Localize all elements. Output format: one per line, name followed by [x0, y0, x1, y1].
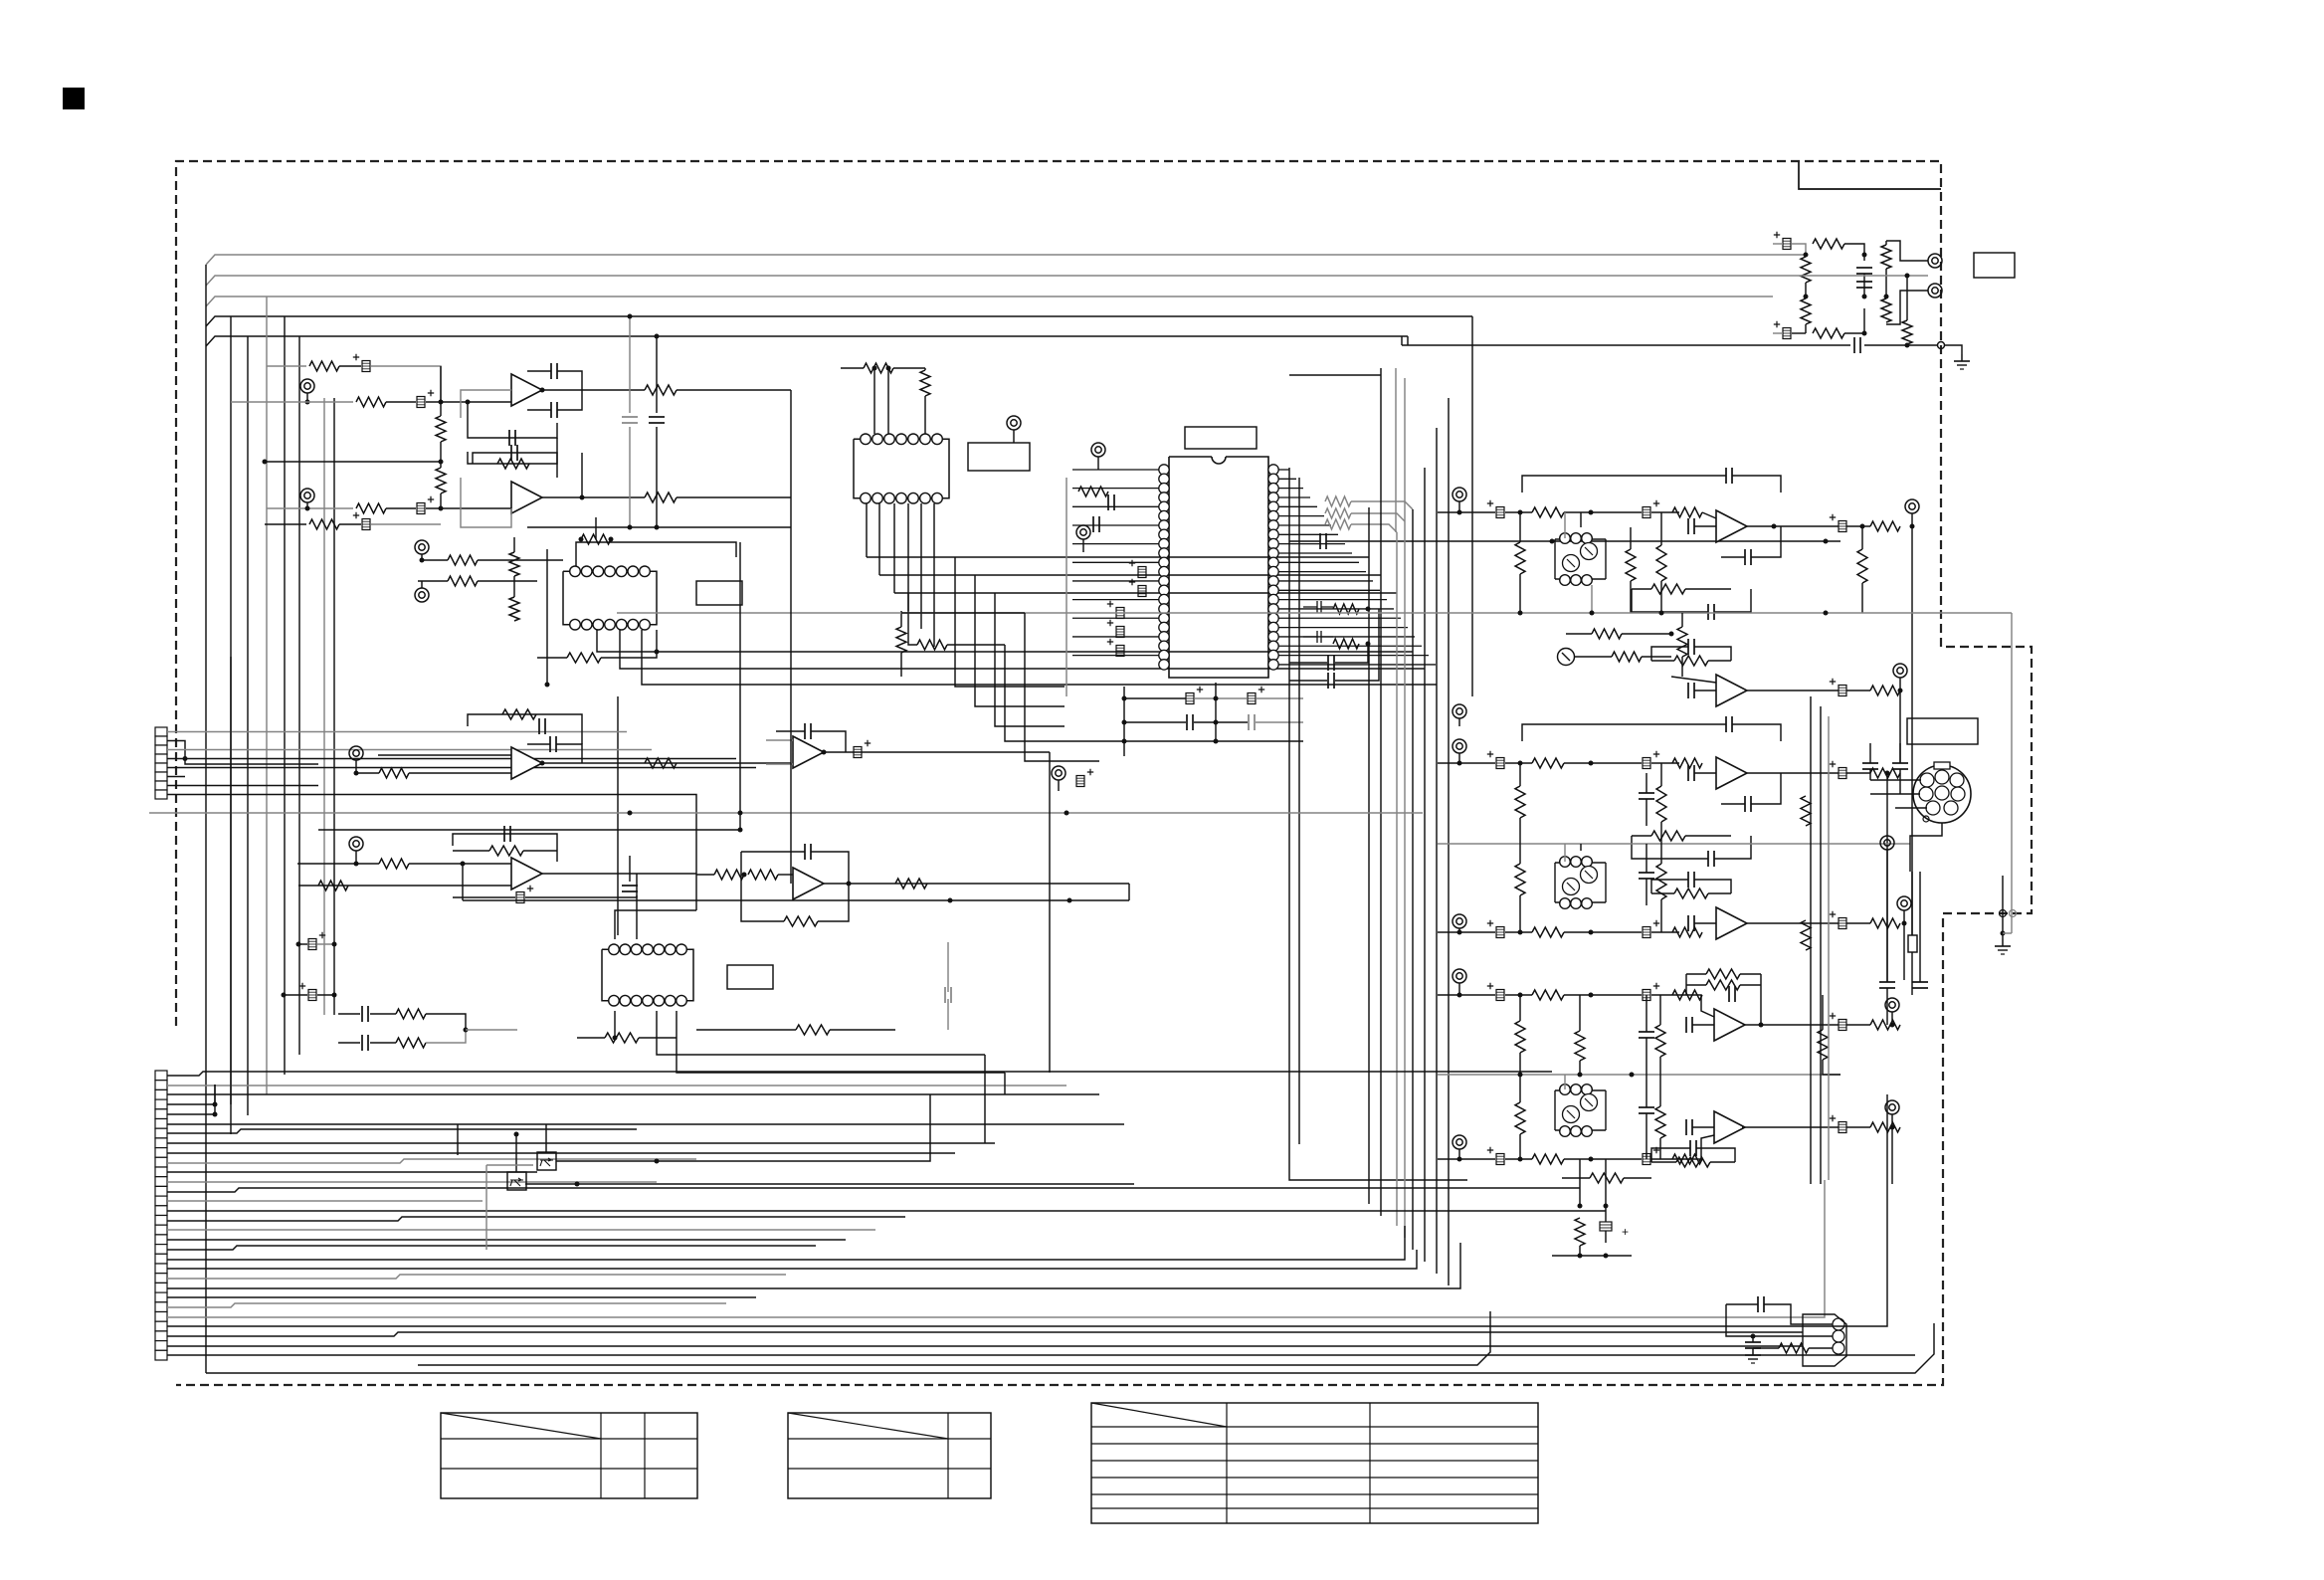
- junction: [847, 882, 852, 887]
- wire horizontal y616 center: [901, 612, 1025, 614]
- resistor: [1626, 549, 1636, 581]
- wire bottom rail y1372: [418, 1311, 1490, 1365]
- wire: [677, 496, 791, 498]
- wire links CN2 area: [247, 1114, 249, 1115]
- resistor: [864, 363, 893, 373]
- junction: [1759, 1023, 1764, 1028]
- wire CN1 pin7: [167, 785, 318, 787]
- capacitor: [1687, 765, 1689, 781]
- junction: [305, 400, 310, 405]
- wire grey: [2003, 932, 2012, 934]
- wire: [1505, 762, 1532, 764]
- resistor: [1818, 1030, 1828, 1060]
- wire: [1651, 1158, 1679, 1160]
- wire: [1519, 995, 1521, 1021]
- capacitor: [549, 736, 551, 752]
- wire: [1562, 1177, 1590, 1179]
- wire: [1885, 269, 1887, 296]
- capacitor: [538, 718, 540, 734]
- wire bus vertical v10: [1448, 398, 1450, 1285]
- wire: [1702, 512, 1716, 518]
- junction: [1518, 510, 1523, 515]
- junction: [1457, 510, 1462, 515]
- resistor: [567, 653, 601, 663]
- wire left vertical 2: [230, 316, 232, 1134]
- junction: [1518, 930, 1523, 935]
- wire: [1869, 743, 1871, 763]
- wire: [339, 365, 361, 367]
- polarized capacitor: [1116, 646, 1124, 657]
- wire bus vertical v4: [1380, 368, 1382, 1216]
- wire: [1846, 1126, 1870, 1128]
- capacitor: [1186, 714, 1188, 730]
- junction: [1214, 696, 1219, 701]
- wire: [1903, 910, 1905, 923]
- wire left vertical 3: [247, 336, 249, 1114]
- wire: [1013, 430, 1015, 443]
- wire grey: [1828, 716, 1830, 1180]
- wire: [468, 863, 511, 865]
- wire: [1646, 773, 1647, 793]
- wire: [908, 593, 917, 645]
- test point: [1928, 254, 1942, 268]
- resistor: [796, 1025, 830, 1035]
- junction: [579, 537, 584, 542]
- wire in 2: [1438, 931, 1495, 933]
- junction: [1518, 1157, 1523, 1162]
- wire left vertical 1: [205, 265, 207, 1373]
- polarized capacitor: [1496, 927, 1504, 938]
- connector CN1 (8-pin): [155, 727, 167, 799]
- wire DIN down: [1910, 823, 1942, 872]
- junction: [183, 756, 188, 761]
- resistor: [1779, 1343, 1809, 1353]
- wire: [421, 581, 423, 588]
- wire: [1058, 780, 1060, 791]
- wire vertical: [1911, 526, 1913, 935]
- polarized capacitor: [1643, 990, 1650, 1001]
- junction: [1905, 274, 1910, 279]
- test point: [1452, 739, 1466, 753]
- wire grey mid to jacks: [1773, 275, 1928, 277]
- wire: [636, 895, 638, 939]
- wire out: [824, 883, 1129, 885]
- resistor: [748, 870, 778, 880]
- wire: [1458, 983, 1460, 995]
- wire: [1886, 850, 1888, 872]
- wire bus: [167, 1243, 1460, 1288]
- junction: [628, 811, 633, 816]
- junction: [213, 1112, 218, 1117]
- wire: [1846, 690, 1870, 691]
- wire: [515, 1132, 517, 1172]
- wire: [1721, 556, 1745, 558]
- open circle: [2000, 910, 2007, 917]
- wire grey vertical: [1065, 478, 1067, 696]
- wire: [1726, 1304, 1833, 1336]
- wire: [1659, 995, 1661, 1025]
- capacitor: [1856, 267, 1872, 269]
- capacitor: [1092, 516, 1094, 532]
- wire: [1289, 540, 1320, 542]
- test point: [300, 489, 314, 502]
- junction: [1884, 295, 1889, 299]
- resistor: [714, 870, 744, 880]
- op-amp: [1714, 1111, 1745, 1143]
- wire: [1651, 1148, 1690, 1162]
- capacitor: [503, 826, 505, 842]
- wire output 2: [542, 496, 645, 498]
- feedback rect above: [468, 714, 582, 744]
- wire: [1659, 1075, 1661, 1106]
- junction: [1366, 607, 1371, 612]
- test point: [1880, 836, 1894, 850]
- board outline (dashed): [176, 161, 2032, 1385]
- wire grey: [371, 523, 441, 525]
- resistor: [1333, 639, 1359, 649]
- capacitor: [361, 1006, 363, 1022]
- fuse F1: [1908, 935, 1917, 952]
- wire: [426, 1014, 466, 1030]
- wire: [1895, 807, 1927, 809]
- polarized capacitor: [1643, 1154, 1650, 1165]
- wire: [1579, 1159, 1581, 1206]
- transistor Q A3: [1558, 649, 1575, 666]
- wire bus: [167, 1094, 1887, 1326]
- wire input: [298, 885, 511, 887]
- junction: [1898, 689, 1903, 693]
- wire vertical x700: [695, 826, 697, 910]
- junction: [1122, 739, 1127, 744]
- polarized capacitor: [516, 892, 524, 903]
- wire input: [468, 772, 511, 774]
- resistor: [1672, 507, 1702, 517]
- wire: [1458, 753, 1460, 763]
- capacitor: [1725, 716, 1727, 732]
- wire: [1886, 872, 1888, 982]
- wire: [1899, 743, 1901, 763]
- wire feedback: [776, 730, 805, 732]
- wire bus: [167, 1093, 1099, 1095]
- wire IC left entries: [1072, 469, 1159, 471]
- test point: [1091, 443, 1105, 457]
- wire bus: [167, 1229, 875, 1231]
- wire: [841, 367, 864, 369]
- transistor Q6 in box: [507, 1172, 526, 1190]
- junction: [1590, 611, 1595, 616]
- op-amp: [1716, 510, 1747, 542]
- wire: [1564, 931, 1642, 933]
- wire out A2: [1747, 690, 1839, 691]
- wire: [1519, 512, 1521, 542]
- wire bus vertical v2: [1298, 478, 1300, 1144]
- junction: [738, 828, 743, 833]
- junction: [1457, 761, 1462, 766]
- junction: [886, 366, 891, 371]
- test point: [1452, 1135, 1466, 1149]
- wire bus vertical v9: [1436, 428, 1438, 1274]
- junction: [1885, 771, 1890, 776]
- wire to ground: [1945, 345, 1962, 354]
- polarized capacitor: [1116, 627, 1124, 638]
- wire: [545, 1124, 547, 1152]
- resistor: [1881, 245, 1891, 269]
- wire: [265, 523, 306, 525]
- wire: [1505, 1158, 1532, 1160]
- ground: [1961, 354, 1963, 361]
- test point: [1897, 896, 1911, 910]
- junction: [1589, 761, 1594, 766]
- wire vertical: [1899, 691, 1901, 763]
- wire: [1564, 762, 1642, 764]
- resistor: [309, 519, 339, 529]
- junction: [1905, 343, 1910, 348]
- wire: [1679, 1135, 1714, 1159]
- polarized capacitor: [1496, 758, 1504, 769]
- capacitor: [1745, 1341, 1761, 1343]
- wire loop IC2 left: [546, 549, 548, 685]
- wire: [1651, 647, 1688, 661]
- IC U4 main processor: [1159, 457, 1278, 678]
- junction: [1214, 720, 1219, 725]
- wire: [1128, 884, 1130, 900]
- wire: [1646, 844, 1647, 873]
- wire: [595, 517, 597, 539]
- junction: [1860, 524, 1865, 529]
- capacitor: [1892, 762, 1908, 764]
- wire: [1605, 1206, 1607, 1222]
- junction: [420, 558, 425, 563]
- wire: [629, 856, 631, 882]
- wire: [556, 1094, 930, 1161]
- junction: [822, 750, 827, 755]
- wire: [879, 574, 975, 576]
- resistor: [1676, 1157, 1710, 1167]
- junction: [1910, 524, 1915, 529]
- capacitor: [1687, 518, 1689, 534]
- junction: [628, 314, 633, 319]
- junction: [655, 650, 660, 655]
- capacitor: [1685, 1017, 1687, 1033]
- wire: [1646, 995, 1647, 1032]
- resistor: [1532, 758, 1564, 768]
- wire: [1505, 994, 1532, 996]
- test point: [1076, 525, 1090, 539]
- wire bus: [167, 1226, 1405, 1260]
- wire: [1844, 244, 1864, 261]
- wire bus: [167, 1275, 786, 1279]
- wire: [1846, 1024, 1870, 1026]
- resistor: [1515, 786, 1525, 818]
- junction: [628, 525, 633, 530]
- wire DIN left: [1870, 779, 1921, 781]
- resistor: [581, 534, 611, 544]
- polarized capacitor: [854, 747, 862, 758]
- wire CN1 pin8: [167, 795, 696, 827]
- feedback rect: [473, 453, 557, 478]
- junction: [296, 942, 301, 947]
- polarized capacitor: [1839, 918, 1846, 929]
- wire jack R: [1886, 241, 1928, 261]
- wire vertical from y347: [1401, 336, 1403, 345]
- wire: [1863, 274, 1865, 296]
- wire horizontal y530: [527, 526, 791, 528]
- resistor: [1857, 549, 1867, 583]
- junction: [609, 537, 614, 542]
- wire y905: [463, 899, 1129, 901]
- junction: [540, 388, 545, 393]
- wire: [1681, 613, 1683, 627]
- wire: [1082, 539, 1084, 552]
- wire: [677, 389, 791, 391]
- resistor: [1902, 320, 1912, 344]
- transistor Q5 in box: [537, 1152, 556, 1170]
- test point: [1452, 969, 1466, 983]
- wire: [1458, 501, 1460, 512]
- wire bus: [167, 1180, 1825, 1317]
- wire: [1870, 793, 1920, 795]
- wire bus: [167, 1354, 1915, 1356]
- wire below IC: [1124, 697, 1186, 699]
- wire bus mid y464: [265, 461, 441, 463]
- wire: [766, 739, 793, 741]
- wire left vertical 7 (grey): [323, 398, 325, 1015]
- grey bus A: [617, 612, 2012, 614]
- wire: [370, 1013, 396, 1015]
- wire: [284, 994, 307, 996]
- resistor: [1515, 1021, 1525, 1053]
- test point: [1885, 998, 1899, 1012]
- op-amp: [1716, 907, 1747, 939]
- wire: [947, 644, 1005, 646]
- capacitor: [1327, 673, 1329, 689]
- resistor: [1813, 239, 1844, 249]
- wire: [1458, 1149, 1460, 1159]
- wire: [696, 1029, 796, 1031]
- junction: [872, 366, 877, 371]
- resistor: [784, 916, 818, 926]
- polarized capacitor: [1643, 758, 1650, 769]
- wire bus: [167, 1345, 1803, 1347]
- wire grey right: [2011, 613, 2013, 933]
- wire CN1 pin5: [167, 767, 756, 769]
- wire: [696, 874, 714, 876]
- junction: [439, 506, 444, 511]
- polarized capacitor: [308, 939, 316, 950]
- junction: [613, 1036, 618, 1041]
- polarized capacitor: [1839, 686, 1846, 696]
- wire: [453, 850, 489, 852]
- op-amp: [793, 736, 824, 768]
- resistor: [1801, 257, 1811, 283]
- wire IC3 bottom drops: [866, 503, 868, 557]
- wire: [2002, 876, 2004, 939]
- resistor: [497, 459, 529, 469]
- wire vertical x744: [739, 542, 741, 830]
- wire x216 vertical: [214, 1085, 216, 1104]
- junction: [1669, 632, 1674, 637]
- junction: [332, 993, 337, 998]
- junction: [354, 862, 359, 867]
- capacitor: [1853, 337, 1855, 353]
- resistor: [1870, 521, 1900, 531]
- polarized capacitor: [417, 503, 425, 514]
- wire: [1630, 527, 1632, 549]
- junction: [1589, 930, 1594, 935]
- test point: [1452, 914, 1466, 928]
- resistor: [1532, 990, 1564, 1000]
- wire: [1792, 332, 1806, 334]
- wire: [1505, 931, 1532, 933]
- wire bus top grey 3: [206, 296, 1773, 306]
- capacitor: [1687, 872, 1689, 888]
- IC U2: [563, 566, 657, 630]
- wire: [1891, 1114, 1893, 1127]
- wire vertical: [1123, 687, 1125, 756]
- resistor: [1078, 487, 1108, 496]
- junction: [655, 334, 660, 339]
- wire fb loop: [1632, 588, 1651, 590]
- wire bus top grey 2: [206, 276, 1773, 286]
- test point: [1052, 766, 1065, 780]
- junction: [1589, 1157, 1594, 1162]
- wire: [1651, 511, 1679, 513]
- junction: [213, 1102, 218, 1107]
- transistor pair: [1555, 857, 1606, 909]
- capacitor: [1689, 1140, 1691, 1156]
- wire: [1846, 772, 1870, 774]
- wire: [924, 368, 926, 370]
- resistor: [1870, 1122, 1900, 1132]
- op-amp: [1716, 757, 1747, 789]
- wire: [1651, 762, 1679, 764]
- junction: [354, 771, 359, 776]
- wire grey: [486, 1164, 533, 1166]
- test point: [1452, 704, 1466, 718]
- wire left vertical 6: [298, 336, 300, 1055]
- wire IC3 bottom: [614, 1011, 616, 1038]
- junction: [1751, 1334, 1756, 1339]
- capacitor: [1744, 796, 1746, 812]
- wire left vertical 4: [266, 296, 268, 1094]
- capacitor: [508, 430, 510, 446]
- wire y834 long: [318, 829, 740, 831]
- resistor: [1870, 768, 1900, 778]
- label box U2: [696, 581, 742, 605]
- wire bus: [167, 1239, 846, 1241]
- junction: [1630, 1073, 1635, 1078]
- resistor: [1672, 1154, 1702, 1164]
- capacitor: [1757, 1296, 1759, 1312]
- resistor: [356, 503, 386, 513]
- table 1: [441, 1413, 697, 1498]
- polarized capacitor: [1496, 990, 1504, 1001]
- wire: [1519, 1075, 1521, 1102]
- wire: [467, 402, 469, 423]
- wire: [1564, 511, 1642, 513]
- resistor: [1325, 496, 1351, 506]
- capacitor: [1912, 981, 1928, 983]
- wire: [214, 1085, 216, 1114]
- resistor: [1575, 1218, 1585, 1246]
- wire bus: [167, 1113, 215, 1115]
- wire y377 from IC top: [1289, 374, 1381, 376]
- capacitor: [804, 723, 806, 739]
- capacitor: [1639, 1031, 1654, 1033]
- wire: [741, 852, 784, 921]
- wire bus vertical v5 grey: [1396, 532, 1398, 1226]
- junction: [1518, 993, 1523, 998]
